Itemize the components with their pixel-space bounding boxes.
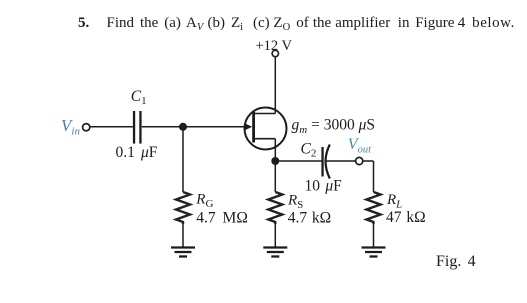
svg-text:4.7 MΩ: 4.7 MΩ	[196, 209, 248, 226]
svg-text:(b) Zi: (b) Zi	[208, 15, 244, 33]
svg-text:0.1 μF: 0.1 μF	[116, 144, 158, 161]
svg-text:Find the (a) AV: Find the (a) AV	[107, 15, 205, 33]
svg-text:4 below.: 4 below.	[458, 15, 515, 31]
svg-text:in Figure: in Figure	[398, 15, 455, 31]
svg-text:4.7 kΩ: 4.7 kΩ	[288, 210, 331, 227]
svg-text:of the amplifier: of the amplifier	[296, 15, 390, 31]
svg-text:5.: 5.	[78, 15, 90, 31]
svg-text:10 μF: 10 μF	[305, 177, 343, 194]
svg-text:Fig. 4: Fig. 4	[436, 253, 476, 270]
svg-text:47 kΩ: 47 kΩ	[386, 209, 426, 226]
